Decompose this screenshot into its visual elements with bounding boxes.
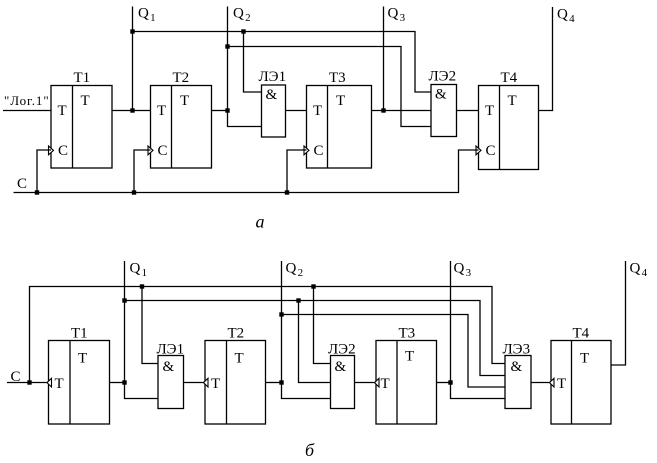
svg-text:T: T [211, 376, 220, 392]
svg-text:T3: T3 [399, 326, 416, 342]
label Q1 (diagram a) [138, 6, 156, 25]
wire: Q2 vertical down to LE1 lower input [228, 7, 262, 127]
svg-text:&: & [335, 359, 347, 375]
svg-text:C: C [158, 143, 168, 159]
label Q4 (diagram a) [557, 7, 575, 26]
node: junction Q2 / wire2 [225, 44, 229, 48]
node: junction Q1 on signal row (b) [122, 380, 126, 384]
svg-text:T: T [157, 103, 166, 119]
wire: T2 output to Q2 vertical [266, 382, 282, 384]
svg-text:T4: T4 [573, 326, 590, 342]
svg-text:ЛЭ1: ЛЭ1 [157, 342, 185, 358]
wire: drop from wire B to LE2 middle input [299, 301, 331, 383]
wire: Q2 vertical down to LE2 bottom input [282, 261, 331, 399]
svg-text:ЛЭ2: ЛЭ2 [429, 69, 457, 85]
label "Лог.1" [4, 93, 50, 108]
node: junction bus/T3 riser [285, 190, 289, 194]
svg-text:ЛЭ3: ЛЭ3 [503, 342, 531, 358]
flip-flop T4 (diagram b) [551, 326, 611, 425]
wire: wire A (C feed) across top to LE3 top input [30, 287, 506, 383]
svg-text:T2: T2 [228, 326, 245, 342]
dynamic input triangle, T1 clock (diagram a) [49, 146, 54, 155]
svg-text:C: C [58, 143, 68, 159]
svg-text:T: T [81, 93, 90, 109]
wire: Q1 feed (y=31.5) to LE2 top input [133, 32, 432, 93]
wire: drop from wire A to LE2 top input [314, 287, 331, 364]
label Q3 (diagram a) [388, 6, 406, 25]
wire: C input to T1 (diagram b) [7, 382, 49, 384]
wire: Q3 vertical [383, 7, 385, 111]
node: junction Q2 on signal row [225, 108, 229, 112]
svg-text:T: T [313, 103, 322, 119]
wire: Q1 vertical down to LE1 bottom input [125, 261, 159, 399]
node: junction Q1 on signal row [130, 108, 134, 112]
AND gate LE3 (diagram b) [503, 342, 532, 409]
label Q2 (diagram b) [286, 261, 304, 280]
svg-text:T: T [78, 351, 87, 367]
wire: "Log.1" input to T1 T-input [3, 110, 51, 112]
node: junction Q1 / wire1 [130, 29, 134, 33]
AND gate LE1 (diagram a) [259, 69, 287, 137]
svg-text:б: б [305, 440, 315, 460]
flip-flop T1 (diagram a) [51, 70, 112, 168]
svg-text:C: C [314, 143, 324, 159]
node: junction C / wire A riser [27, 380, 31, 384]
svg-text:T: T [55, 376, 64, 392]
AND gate LE2 (diagram b) [328, 342, 356, 409]
wire: Q2 feed (y=46.5) to LE2 bottom input [228, 47, 432, 127]
svg-text:T3: T3 [329, 70, 346, 86]
svg-text:T: T [336, 93, 345, 109]
node: junction Q3 on signal row (b) [448, 380, 452, 384]
node: junction Q2 on signal row (b) [279, 380, 283, 384]
dynamic input triangle, T3 (diagram b) [375, 378, 380, 387]
label b (italic, diagram b caption) [305, 440, 315, 460]
flip-flop T3 (diagram a) [307, 70, 372, 168]
wire: clock riser to T1 [37, 150, 51, 193]
svg-text:T: T [58, 103, 67, 119]
wire: LE3 output to T4 input [531, 382, 551, 384]
svg-text:&: & [435, 87, 447, 103]
wire: wire B (Q1 feed) across to LE3 second input [125, 301, 506, 376]
node: junction wire A / drop to LE1 [140, 284, 144, 288]
dynamic input triangle, T4 clock (diagram a) [476, 146, 481, 155]
svg-text:T: T [557, 376, 566, 392]
svg-text:T: T [180, 93, 189, 109]
wire: drop from wire A to LE1 top input [142, 287, 158, 364]
flip-flop T3 (diagram b) [376, 326, 437, 425]
svg-text:ЛЭ1: ЛЭ1 [259, 69, 287, 85]
wire: clock riser to T3 [287, 150, 307, 193]
svg-text:T1: T1 [71, 326, 88, 342]
label C input (diagram b) [11, 369, 21, 385]
node: junction wire1 / drop to LE1 [241, 29, 245, 33]
dynamic input triangle, T4 (diagram b) [550, 378, 555, 387]
flip-flop T2 (diagram a) [151, 70, 212, 168]
node: junction bus/T2 riser [132, 190, 136, 194]
dynamic input triangle, T2 (diagram b) [204, 378, 209, 387]
wire: wire C (Q2 feed) across to LE3 third input [282, 315, 506, 388]
wire: T3 output to Q3 vertical [437, 382, 451, 384]
svg-text:&: & [266, 87, 278, 103]
svg-text:T: T [485, 103, 494, 119]
node: junction bus/T1 riser [35, 190, 39, 194]
label Q4 (diagram b) [630, 261, 648, 280]
svg-text:ЛЭ2: ЛЭ2 [328, 342, 356, 358]
AND gate LE1 (diagram b) [157, 342, 185, 409]
svg-text:T: T [580, 351, 589, 367]
dynamic input triangle, T1 (diagram b) [47, 378, 52, 387]
label Q1 (diagram b) [130, 261, 148, 280]
wire: Q1 vertical [132, 7, 134, 111]
node: junction wire B / drop to LE2 [296, 298, 300, 302]
flip-flop T1 (diagram b) [49, 326, 110, 425]
svg-text:&: & [511, 359, 523, 375]
svg-text:T: T [381, 376, 390, 392]
wire: LE1 output to T2 input [184, 382, 206, 384]
wire: LE1 output to T3 input [286, 110, 307, 112]
node: junction Q1 / wire B [122, 298, 126, 302]
wire: Q3 vertical down to LE3 bottom input [451, 261, 506, 399]
wire: T4 output up to Q4 (diagram b) [611, 261, 626, 365]
node: junction Q2 / wire C [279, 312, 283, 316]
svg-text:а: а [256, 212, 265, 232]
svg-text:T: T [235, 351, 244, 367]
svg-text:T2: T2 [173, 70, 190, 86]
node: junction Q3 on signal row [381, 108, 385, 112]
wire: clock riser to T2 [134, 150, 151, 193]
node: junction wire A / drop to LE2 [311, 284, 315, 288]
wire: T3 output to LE2 middle input [372, 110, 432, 112]
wire: T2 output to Q2 vertical [212, 110, 228, 112]
svg-text:C: C [486, 143, 496, 159]
label Q3 (diagram b) [454, 261, 472, 280]
svg-text:&: & [163, 359, 175, 375]
dynamic input triangle, T2 clock (diagram a) [148, 146, 153, 155]
svg-text:"Лог.1": "Лог.1" [4, 93, 50, 108]
label Q2 (diagram a) [233, 6, 251, 25]
label C clock input (diagram a) [17, 176, 27, 192]
svg-text:T: T [405, 349, 414, 365]
wire: clock bus C (diagram a) [14, 150, 479, 193]
wire: T1 output to Q1 vertical [110, 382, 125, 384]
svg-text:T1: T1 [74, 70, 91, 86]
AND gate LE2 (diagram a) [429, 69, 457, 137]
svg-text:T4: T4 [501, 70, 518, 86]
wire: T4 output up to Q4 [539, 7, 553, 111]
label a (italic, diagram a caption) [256, 212, 265, 232]
svg-text:C: C [17, 176, 27, 192]
flip-flop T4 (diagram a) [479, 70, 539, 170]
flip-flop T2 (diagram b) [205, 326, 266, 425]
wire: drop from wire1 to LE1 top input [244, 32, 262, 93]
wire: LE2 output to T3 input [355, 382, 377, 384]
wire: LE2 output to T4 input [457, 110, 479, 112]
wire: T1 output to T2 input [112, 110, 151, 112]
svg-text:T: T [508, 93, 517, 109]
dynamic input triangle, T3 clock (diagram a) [304, 146, 309, 155]
